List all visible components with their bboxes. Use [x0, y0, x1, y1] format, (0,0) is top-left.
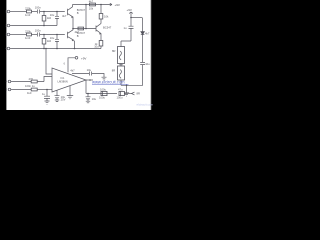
svg-text:8R: 8R [112, 49, 115, 53]
svg-text:4k7: 4k7 [70, 68, 75, 72]
svg-text:100u: 100u [117, 96, 123, 100]
svg-text:10u: 10u [50, 36, 55, 40]
svg-text:25V: 25V [61, 98, 66, 102]
wire C9 to arrow [124, 93, 131, 95]
wire J3 to R7 [12, 34, 27, 36]
node dot rail3 [85, 28, 87, 30]
ground sym C8 [86, 101, 90, 103]
wire R1 to C1 [32, 11, 38, 13]
svg-text:B: B [77, 11, 79, 15]
connector J1 [7, 10, 11, 13]
node dot G2 [56, 48, 58, 50]
resistor R6 on line [78, 27, 84, 30]
svg-text:10u: 10u [145, 62, 150, 66]
node dot J6b [46, 89, 48, 91]
transistor Q1 [68, 5, 74, 29]
left black bar [0, 0, 6, 110]
node dot G3 [74, 48, 76, 50]
resistor R2 vertical [43, 12, 45, 16]
node dot A2 [56, 11, 58, 13]
ground sym C6 [45, 101, 50, 104]
resistor R7 [27, 33, 32, 36]
resistor R12 emitter Q3 [99, 41, 103, 47]
resistor R10 [31, 80, 37, 83]
svg-text:4k7: 4k7 [89, 0, 94, 4]
svg-text:100n: 100n [35, 29, 41, 33]
capacitor C8 gnd [86, 94, 91, 102]
wire V1 to rail [131, 17, 142, 19]
node dot A3 [43, 25, 45, 27]
arrow out [132, 92, 135, 95]
svg-text:4k7: 4k7 [145, 31, 150, 35]
transistor Q3 [96, 24, 101, 41]
svg-text:+9V: +9V [115, 3, 120, 7]
resistor R5 vertical [99, 14, 103, 20]
labels (tiny grey text) [5, 0, 150, 102]
pot P2 [118, 66, 125, 80]
svg-text:10k: 10k [104, 14, 109, 18]
ground sym C7 [55, 100, 59, 102]
svg-text:8R: 8R [137, 92, 140, 96]
wire J6 to R11 [13, 89, 32, 91]
wire J1 to R1 [12, 11, 27, 13]
wire J2 ground line [12, 25, 58, 27]
connector J3 [7, 33, 11, 36]
transistor Q2 [68, 29, 75, 49]
wire P2 down [120, 80, 122, 85]
wire out bottom [86, 93, 117, 95]
svg-text:10u: 10u [87, 68, 92, 72]
svg-text:220k: 220k [25, 6, 31, 10]
node dot B1 [43, 34, 45, 36]
svg-text:8R: 8R [112, 69, 115, 73]
svg-text:1m0: 1m0 [25, 36, 31, 40]
wire J5 to R10 [13, 81, 32, 83]
right rail wire [121, 18, 143, 86]
svg-text:100n: 100n [35, 6, 41, 10]
pin4 ground wire [69, 86, 71, 96]
capacitor C6 vertical [44, 90, 50, 102]
+9V arrow right [129, 12, 133, 14]
node dot outg [87, 93, 89, 95]
diode D1 [141, 32, 145, 35]
resistor R3 on rail [90, 3, 96, 6]
wire R11 to opamp [37, 89, 52, 91]
svg-text:www.elcircuit.com: www.elcircuit.com [92, 79, 125, 84]
wire R10 to opamp [37, 77, 52, 82]
ground sym pin4 [67, 96, 73, 99]
node dot E1 [72, 28, 74, 30]
svg-text:+9V: +9V [127, 8, 132, 12]
wire out down [85, 80, 87, 94]
junction tick [119, 64, 123, 67]
svg-text:100n 1u: 100n 1u [25, 84, 35, 88]
node dot A1 [43, 11, 45, 13]
node dot rail2 [100, 4, 102, 6]
background [0, 0, 160, 110]
svg-text:BC547: BC547 [103, 26, 112, 30]
connector J2 ground [7, 24, 11, 27]
node dot rail1 [85, 4, 87, 6]
wire C3 to Q2 base [40, 34, 65, 36]
node dot out [89, 79, 91, 81]
+9V arrow top [110, 3, 112, 6]
+9V right column [130, 12, 132, 26]
svg-text:100u: 100u [99, 96, 105, 100]
resistor R11 [31, 88, 37, 91]
collector line Q1e-Q3 [73, 28, 96, 30]
wire R7 to C3 [32, 34, 38, 36]
svg-text:1k0: 1k0 [27, 91, 32, 95]
capacitor C9 output [101, 91, 107, 95]
svg-text:220k: 220k [25, 29, 31, 33]
right black bar [150, 0, 153, 110]
capacitor C2 vertical [55, 12, 59, 26]
svg-text:1u: 1u [42, 92, 45, 96]
node dot G5 [45, 48, 47, 50]
svg-text:10u: 10u [94, 45, 99, 49]
svg-text:10u: 10u [50, 13, 55, 17]
node dot sp [126, 85, 128, 87]
top rail wire [73, 4, 113, 6]
svg-text:B: B [77, 34, 79, 38]
connector J5 [8, 80, 12, 83]
svg-text:10u: 10u [92, 97, 97, 101]
svg-text:100u: 100u [100, 88, 106, 92]
svg-text:1m0: 1m0 [25, 13, 31, 17]
wire R5 branch [100, 5, 102, 14]
capacitor C10 [129, 26, 134, 41]
wire to pot [121, 41, 131, 47]
ground sym sp [124, 93, 129, 96]
op-amp U1 [52, 68, 86, 92]
capacitor C12 output [119, 91, 124, 95]
svg-text:elcircuit.com: elcircuit.com [137, 103, 154, 107]
wire R branch x86 [85, 5, 87, 29]
connector J4 ground [7, 47, 11, 50]
capacitor C11 [140, 62, 145, 64]
wire R5 to Q3 [100, 19, 102, 24]
node dot G1 [43, 48, 45, 50]
V+ pin wire [68, 58, 75, 73]
wire +in [46, 49, 52, 75]
ground sym pin7 [102, 77, 107, 80]
node dot B2 [56, 34, 58, 36]
svg-text:47u: 47u [118, 88, 123, 92]
capacitor C7 below opamp [55, 90, 60, 100]
resistor R8 vertical [43, 35, 45, 39]
svg-text:470: 470 [29, 77, 34, 81]
pot P1 [118, 47, 125, 64]
V+ connector circle [75, 57, 78, 60]
svg-text:4k7: 4k7 [62, 14, 67, 18]
capacitor C4 vertical [55, 35, 59, 49]
ground bus wire [12, 48, 102, 50]
capacitor C1 [38, 10, 40, 14]
svg-text:LM386N: LM386N [58, 79, 68, 83]
resistor R1 [27, 10, 32, 13]
connector J6 [8, 88, 12, 91]
wire C1 to Q1 base [40, 11, 65, 13]
bypass pin7 wire [72, 74, 104, 78]
svg-text:1u: 1u [124, 26, 127, 30]
output wire stub [86, 79, 93, 81]
wire gnd sp [126, 85, 128, 93]
node dot V1 [130, 17, 132, 19]
watermark link text [92, 79, 154, 106]
bypass capacitor C5 [90, 72, 92, 76]
capacitor C3 [38, 33, 40, 37]
svg-text:+9V: +9V [81, 56, 86, 60]
svg-text:10k: 10k [89, 6, 94, 10]
